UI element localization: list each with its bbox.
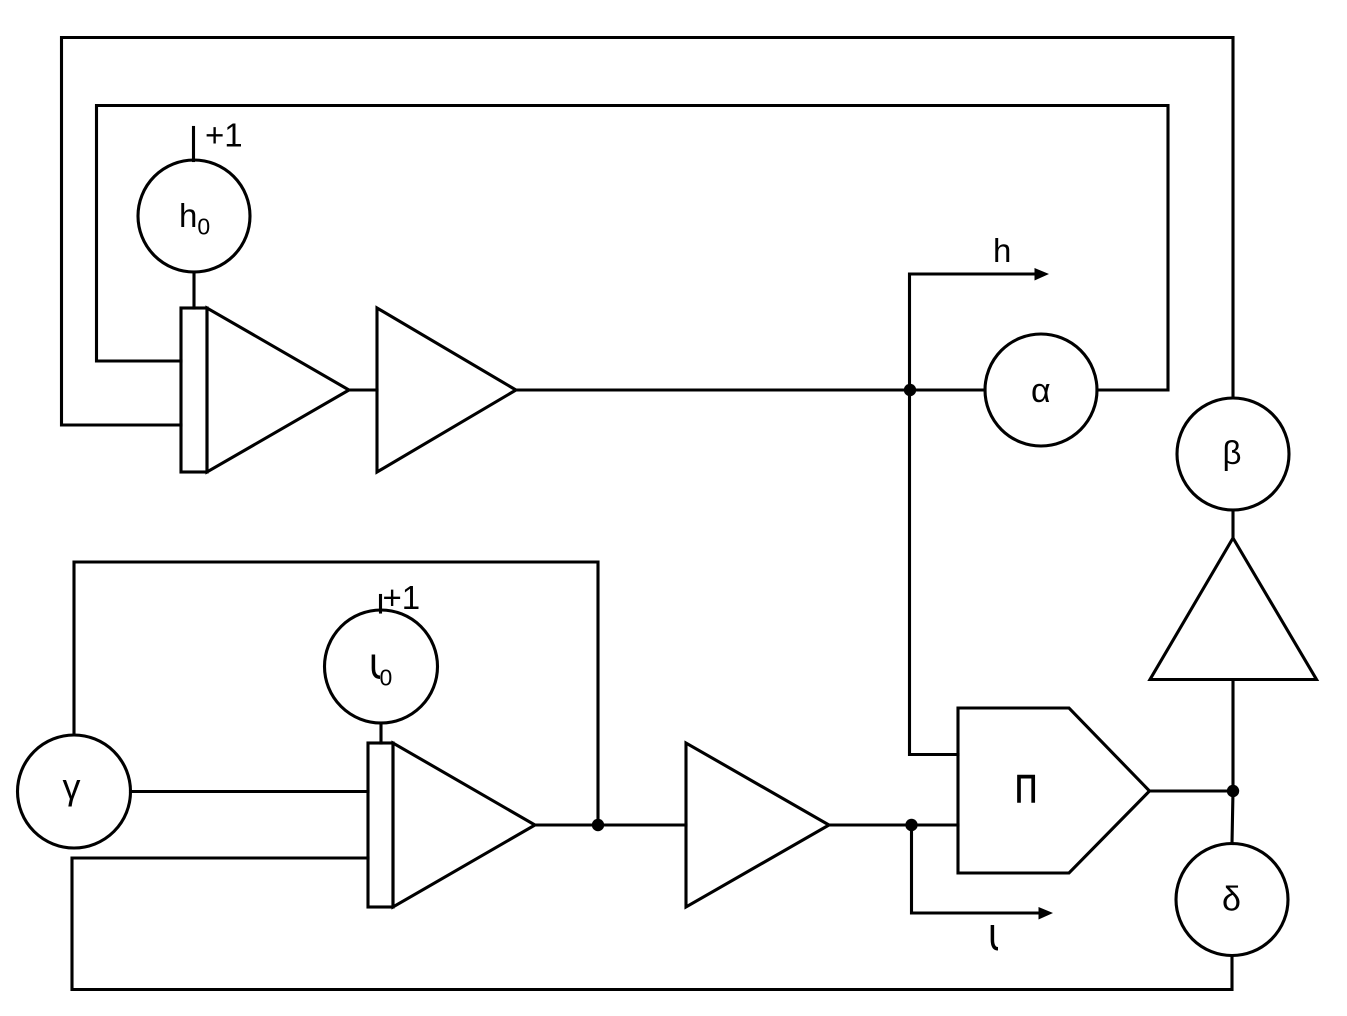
svg-text:γ: γ [63,766,81,807]
op-amp upper amp [377,308,516,472]
op-amp lower amp [686,743,829,907]
summing bar upper summer [181,308,207,472]
svg-text:δ: δ [1222,881,1241,919]
svg-text:α: α [1031,372,1051,410]
op-amp lower summer triangle [393,743,535,907]
gain circle gamma [18,735,131,848]
gain circle beta [1177,398,1289,510]
gain circle delta [1176,844,1288,956]
node D junction dot right [1227,785,1239,797]
wire gamma feedback loop: lower node up and over to gamma top [74,562,598,825]
source circle l0 [325,610,438,723]
wire h tap arrow [910,274,1036,390]
summing bar lower summer [368,743,393,907]
wire l0 to lower summer [379,723,382,743]
arrowhead h [1035,268,1050,281]
gain circle alpha [985,334,1097,446]
wire upper summer out to amp [349,388,377,391]
wire h junction down to product block [910,390,959,755]
op-amp up amp [1150,538,1317,680]
wire bottom return loop: delta to lower summer lower input [72,858,1232,990]
multiplier block Pi [958,708,1150,873]
svg-text:h: h [993,232,1011,269]
node B junction dot lower summer out [592,819,604,831]
wire lower summer out to amp [535,823,686,826]
node A junction dot upper [904,384,916,396]
svg-text:β: β [1223,434,1242,471]
wire l tap arrow [912,825,1040,913]
arrowhead l [1039,907,1054,920]
wire inner feedback loop: alpha right edge to upper summer upper input [97,106,1169,391]
wire node to delta [1232,791,1233,844]
node C junction dot lower amp out [905,819,917,831]
op-amp upper summer triangle [207,308,349,472]
wire upper amp out to alpha [516,388,985,391]
label l iota glyph [992,925,998,949]
label Pi glyph [1017,775,1035,803]
source circle h0 [138,160,250,272]
wire outer feedback loop: beta top to upper summer lower input [62,38,1234,426]
wire lower amp out to product block [829,823,958,826]
wire +1 tick above l0 [379,596,382,613]
svg-text:+1: +1 [205,117,243,154]
wire +1 tick above h0 [192,128,195,161]
wire product tip to node [1150,789,1234,792]
label l0 iota glyph [373,655,380,678]
wire h0 to upper summer [192,272,195,308]
wire up amp base to node [1231,680,1234,792]
wire beta to amp apex [1231,510,1234,538]
svg-text:+1: +1 [383,579,421,616]
wire gamma to lower summer upper input [131,790,369,793]
svg-text:0: 0 [380,664,393,690]
